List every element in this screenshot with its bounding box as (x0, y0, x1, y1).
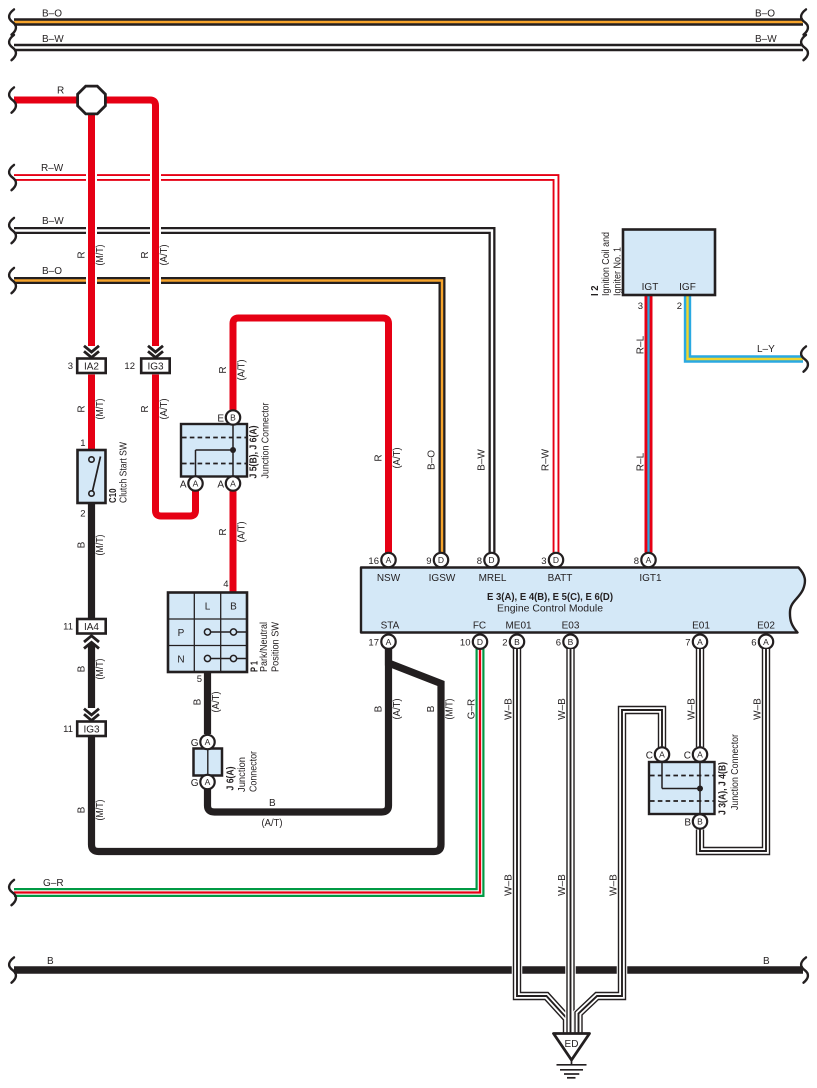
svg-text:W–B: W–B (557, 698, 568, 720)
svg-text:W–B: W–B (687, 698, 698, 720)
svg-text:B: B (684, 818, 691, 829)
junction connector J3(A) J4(B) (646, 733, 741, 828)
pin 16 NSW (368, 553, 395, 567)
svg-text:17: 17 (368, 638, 379, 649)
svg-text:8: 8 (477, 556, 482, 567)
svg-text:G: G (191, 778, 199, 789)
svg-text:A: A (697, 637, 703, 647)
svg-text:B: B (47, 956, 54, 967)
wire R A/T to junction connector (156, 375, 196, 517)
wire B M/T IA4 to IG3 (77, 644, 107, 709)
wire B A/T STA to J6(A) (208, 649, 404, 829)
connector IG3 (124, 359, 169, 374)
svg-text:A: A (763, 637, 769, 647)
wire W-B E03 to ED (557, 649, 571, 1033)
connector IA4 (63, 619, 106, 634)
svg-text:2: 2 (502, 638, 507, 649)
svg-text:G: G (191, 738, 199, 749)
pin 3 BATT (541, 553, 563, 567)
pin A left of J3/J4 (655, 747, 669, 761)
svg-text:W–B: W–B (504, 698, 515, 720)
svg-text:E02: E02 (757, 621, 775, 632)
svg-text:A: A (646, 555, 652, 565)
svg-text:IG3: IG3 (83, 725, 100, 736)
svg-text:7: 7 (685, 638, 690, 649)
svg-text:W–B: W–B (557, 874, 568, 896)
svg-text:B: B (230, 413, 236, 423)
svg-text:B–O: B–O (427, 450, 438, 470)
pin A left of J5/J6 (188, 476, 202, 490)
svg-text:12: 12 (124, 361, 135, 372)
svg-text:Igniter No. 1: Igniter No. 1 (613, 247, 624, 296)
svg-text:D: D (553, 555, 559, 565)
pin 2 ME01 (502, 635, 524, 649)
svg-text:Junction Connector: Junction Connector (261, 402, 272, 479)
wire R feed with A/T branch (9, 86, 170, 420)
svg-text:B–W: B–W (42, 216, 64, 227)
svg-text:L–Y: L–Y (757, 344, 775, 355)
svg-text:B: B (269, 798, 276, 809)
svg-text:IG3: IG3 (147, 362, 164, 373)
svg-text:A: A (386, 637, 392, 647)
svg-text:C: C (684, 751, 691, 762)
svg-text:W–B: W–B (753, 698, 764, 720)
connector IG3 (lower) (63, 722, 106, 737)
connector arrows into IG3 (148, 346, 163, 358)
svg-text:3: 3 (541, 556, 546, 567)
svg-text:B: B (426, 705, 437, 712)
svg-text:A: A (217, 480, 224, 491)
svg-text:A: A (386, 555, 392, 565)
svg-text:(A/T): (A/T) (392, 699, 403, 720)
wire B M/T clutch switch to IA4 (77, 503, 107, 619)
svg-text:Clutch Start SW: Clutch Start SW (119, 442, 130, 503)
svg-text:3: 3 (638, 301, 643, 312)
svg-text:(A/T): (A/T) (237, 360, 248, 381)
svg-text:R–W: R–W (41, 163, 64, 174)
junction connector J5(B) J6(A) (180, 402, 272, 491)
connector IA2 (68, 359, 106, 374)
svg-text:E 3(A), E 4(B), E 5(C), E 6(D): E 3(A), E 4(B), E 5(C), E 6(D) (487, 592, 613, 603)
svg-text:11: 11 (63, 622, 73, 633)
svg-text:(A/T): (A/T) (237, 522, 248, 543)
svg-text:B: B (568, 637, 574, 647)
svg-text:L: L (205, 602, 211, 613)
ECM engine control module (361, 568, 805, 633)
wire W-B junction J3/J4 to ED (579, 710, 663, 1033)
svg-text:D: D (477, 637, 483, 647)
svg-text:(A/T): (A/T) (262, 818, 283, 829)
svg-text:R–L: R–L (636, 335, 647, 354)
svg-text:R: R (77, 251, 88, 258)
svg-text:C10: C10 (108, 488, 119, 503)
wire R M/T branch (77, 108, 107, 420)
ground ED (554, 1034, 590, 1078)
wire B M/T IG3 to STA (77, 649, 456, 852)
svg-text:R–W: R–W (541, 448, 552, 471)
svg-text:J 5(B), J 6(A): J 5(B), J 6(A) (249, 426, 260, 479)
connector arrows into IA2 (84, 346, 99, 358)
svg-text:B: B (763, 956, 770, 967)
svg-text:I 2: I 2 (590, 285, 601, 296)
pin B bottom of J3/J4 (693, 814, 707, 828)
svg-text:D: D (488, 555, 494, 565)
svg-text:J 3(A), J 4(B): J 3(A), J 4(B) (718, 762, 729, 815)
svg-text:Connector: Connector (249, 750, 260, 792)
svg-text:(A/T): (A/T) (159, 399, 170, 420)
svg-text:11: 11 (63, 724, 73, 735)
wire L-Y IGF output (677, 294, 808, 372)
svg-text:6: 6 (556, 638, 561, 649)
wire B-O bus (top) (9, 9, 808, 35)
svg-text:B–O: B–O (755, 9, 775, 20)
svg-text:(M/T): (M/T) (95, 800, 106, 821)
wire W-B E02 to J3/J4 pin B (700, 649, 766, 851)
svg-text:A: A (205, 777, 211, 787)
wire B ground bus (bottom) (9, 956, 808, 983)
svg-text:NSW: NSW (377, 573, 401, 584)
svg-text:Junction: Junction (237, 757, 248, 792)
svg-text:R: R (218, 528, 229, 535)
park/neutral position switch P1 (168, 579, 282, 685)
pin 8 IGT1 (634, 553, 656, 567)
svg-text:Junction Connector: Junction Connector (730, 733, 741, 810)
svg-text:9: 9 (426, 556, 431, 567)
svg-text:Engine Control Module: Engine Control Module (497, 604, 603, 615)
svg-text:B: B (514, 637, 520, 647)
svg-text:IA4: IA4 (84, 622, 99, 633)
svg-text:Ignition Coil and: Ignition Coil and (601, 232, 612, 296)
svg-text:(A/T): (A/T) (392, 448, 403, 469)
svg-text:W–B: W–B (609, 874, 620, 896)
svg-text:R: R (218, 366, 229, 373)
svg-text:C: C (646, 751, 653, 762)
svg-text:6: 6 (751, 638, 756, 649)
svg-text:(A/T): (A/T) (211, 692, 222, 713)
pin 6 E02 (751, 635, 773, 649)
wire R-W feed (9, 163, 556, 554)
svg-text:(M/T): (M/T) (95, 659, 106, 680)
wire B-W bus (top) (9, 34, 808, 60)
svg-text:IGF: IGF (679, 282, 696, 293)
svg-text:IA2: IA2 (84, 362, 99, 373)
pin B of J5/J6 (226, 410, 240, 424)
svg-text:IGSW: IGSW (429, 573, 456, 584)
svg-text:R: R (374, 454, 385, 461)
svg-text:B: B (77, 541, 88, 548)
svg-text:(M/T): (M/T) (95, 245, 106, 266)
connector arrows out of IA4 (84, 636, 99, 649)
svg-text:MREL: MREL (479, 573, 507, 584)
pin A right of J5/J6 (226, 476, 240, 490)
svg-text:N: N (177, 655, 184, 666)
svg-text:ED: ED (565, 1039, 579, 1050)
svg-text:A: A (180, 480, 187, 491)
wire B-O feed (9, 266, 442, 554)
wire B A/T P1 pin 5 to J6(A) (193, 672, 223, 734)
splice octagon (78, 86, 106, 114)
svg-text:R–L: R–L (636, 452, 647, 471)
svg-text:B–O: B–O (42, 9, 62, 20)
svg-text:R: R (57, 86, 64, 97)
svg-text:E03: E03 (562, 621, 580, 632)
svg-text:Park/Neutral: Park/Neutral (259, 622, 270, 672)
pin 6 E03 (556, 635, 578, 649)
svg-text:A: A (193, 479, 199, 489)
svg-text:B: B (193, 698, 204, 705)
svg-text:E01: E01 (692, 621, 710, 632)
pin 7 E01 (685, 635, 707, 649)
wire W-B E01 to J3/J4 (687, 649, 701, 747)
svg-text:2: 2 (80, 509, 85, 520)
junction connector J6(A) (191, 735, 260, 792)
svg-text:(A/T): (A/T) (159, 245, 170, 266)
svg-text:G–R: G–R (467, 699, 478, 720)
clutch start switch C10 (78, 438, 130, 520)
wire B-W feed (9, 216, 492, 554)
svg-text:D: D (438, 555, 444, 565)
pin A bottom of J6(A) (200, 775, 214, 789)
svg-text:B: B (77, 806, 88, 813)
wire R-L IGT to IGT1 (636, 294, 649, 553)
wire W-B ME01 to ED (504, 649, 568, 1033)
svg-text:5: 5 (197, 674, 202, 685)
svg-text:R: R (140, 251, 151, 258)
svg-text:P: P (178, 628, 185, 639)
wire R to clutch start switch (88, 375, 95, 450)
svg-text:3: 3 (68, 361, 73, 372)
svg-text:G–R: G–R (43, 878, 64, 889)
svg-text:B: B (230, 602, 237, 613)
svg-text:B–W: B–W (755, 34, 777, 45)
svg-text:IGT1: IGT1 (639, 573, 662, 584)
svg-text:8: 8 (634, 556, 639, 567)
svg-text:10: 10 (460, 638, 471, 649)
wire R junction to P1 pin 4 (218, 490, 248, 592)
svg-text:R: R (77, 405, 88, 412)
svg-text:B: B (374, 705, 385, 712)
svg-text:IGT: IGT (642, 282, 659, 293)
svg-text:W–B: W–B (504, 874, 515, 896)
svg-text:J 6(A): J 6(A) (226, 767, 237, 791)
svg-text:R: R (140, 405, 151, 412)
svg-text:A: A (697, 750, 703, 760)
svg-text:B–W: B–W (477, 449, 488, 471)
svg-text:A: A (659, 750, 665, 760)
svg-text:4: 4 (223, 579, 228, 590)
pin A top of J6(A) (200, 735, 214, 749)
ignition coil I2 (590, 230, 715, 297)
svg-text:Position SW: Position SW (271, 621, 282, 672)
connector arrows into lower IG3 (84, 709, 99, 721)
svg-text:B–O: B–O (42, 266, 62, 277)
pin 10 FC (460, 635, 487, 649)
wire R junction E to ECM NSW (218, 318, 403, 553)
pin 8 MREL (477, 553, 499, 567)
wire G-R feed (9, 649, 480, 905)
pin A right of J3/J4 (693, 747, 707, 761)
svg-text:1: 1 (80, 438, 85, 449)
pin 17 STA (368, 635, 395, 649)
svg-text:(M/T): (M/T) (445, 699, 456, 720)
svg-text:E: E (217, 414, 224, 425)
svg-text:B: B (697, 817, 703, 827)
svg-text:A: A (205, 737, 211, 747)
svg-text:FC: FC (473, 621, 486, 632)
svg-text:B: B (77, 665, 88, 672)
svg-text:16: 16 (368, 556, 379, 567)
svg-text:BATT: BATT (548, 573, 573, 584)
svg-text:ME01: ME01 (505, 621, 532, 632)
svg-text:2: 2 (677, 301, 682, 312)
svg-text:A: A (230, 479, 236, 489)
pin 9 IGSW (426, 553, 448, 567)
svg-text:STA: STA (381, 621, 400, 632)
svg-text:B–W: B–W (42, 34, 64, 45)
svg-text:(M/T): (M/T) (95, 535, 106, 556)
svg-text:(M/T): (M/T) (95, 399, 106, 420)
